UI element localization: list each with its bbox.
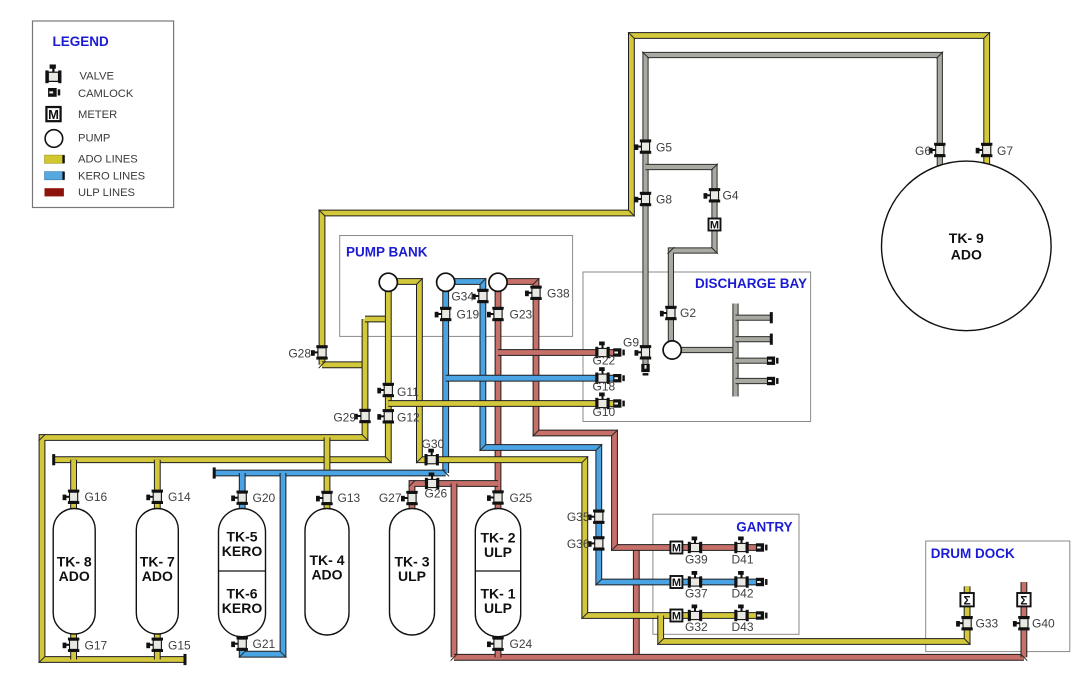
valve G8 <box>635 192 652 206</box>
node PUMP BANK box <box>340 236 573 337</box>
valve G38 <box>525 286 542 300</box>
node KERO header end <box>213 467 216 478</box>
wire yellow G15 stub <box>154 630 161 660</box>
node stub2 end <box>770 334 773 345</box>
svg-text:G32: G32 <box>685 620 708 634</box>
wire yellow top loop G28 to TK-9 <box>322 36 987 365</box>
camlock G9 end <box>641 364 649 376</box>
wire gray manifold <box>732 304 738 397</box>
svg-text:G9: G9 <box>623 336 639 350</box>
svg-text:G28: G28 <box>288 347 311 361</box>
node tank TK-7 <box>136 509 178 635</box>
svg-text:G21: G21 <box>253 637 276 651</box>
wire red pump3 riser to TK-2 <box>495 291 502 509</box>
valve G7 <box>976 143 993 157</box>
valve G25 <box>487 490 504 504</box>
wire red branch down <box>451 484 458 658</box>
svg-text:G7: G7 <box>997 144 1013 158</box>
camlock legend icon <box>48 88 60 97</box>
valve G23 <box>487 307 504 321</box>
svg-text:DRUM DOCK: DRUM DOCK <box>931 546 1015 561</box>
svg-text:G40: G40 <box>1032 617 1055 631</box>
wire red pump3 discharge to gantry <box>498 282 758 548</box>
valve G12 <box>377 409 394 423</box>
svg-text:G11: G11 <box>397 385 419 399</box>
pump legend icon <box>45 130 63 148</box>
node stub1 end <box>770 312 773 323</box>
svg-text:G18: G18 <box>593 380 616 394</box>
camlock gantry ADO end <box>756 611 768 619</box>
camlock manifold stub 4 end <box>767 377 779 385</box>
svg-text:ULP LINES: ULP LINES <box>78 187 135 199</box>
camlock G22 end <box>613 348 625 356</box>
meter gantry meter ADO <box>670 610 682 623</box>
svg-text:G15: G15 <box>168 638 191 652</box>
wire gray G4 branch to discharge pump <box>646 167 715 345</box>
wire yellow pump1 discharge to gantry <box>388 282 758 616</box>
svg-text:PUMP: PUMP <box>78 133 110 145</box>
valve G24 <box>487 637 504 651</box>
valve G34 <box>472 289 489 303</box>
node tank TK-8 <box>53 509 95 635</box>
svg-text:ADO: ADO <box>311 567 342 583</box>
svg-text:DISCHARGE BAY: DISCHARGE BAY <box>695 276 807 291</box>
node tank TK-5/TK-6 <box>219 509 266 637</box>
valve legend icon <box>45 64 61 83</box>
svg-text:G29: G29 <box>333 411 356 425</box>
wire gray manifold stub 2 <box>736 336 771 342</box>
node DRUM DOCK box <box>926 541 1070 652</box>
svg-text:G25: G25 <box>510 491 533 505</box>
svg-text:G13: G13 <box>338 491 361 505</box>
svg-text:ADO LINES: ADO LINES <box>78 154 138 166</box>
svg-text:G38: G38 <box>547 286 570 300</box>
svg-text:G14: G14 <box>168 490 191 504</box>
wire red G22 line <box>498 349 614 356</box>
pump discharge pump <box>663 341 681 359</box>
valve G5 <box>635 139 652 153</box>
svg-text:D41: D41 <box>732 553 754 567</box>
svg-text:D43: D43 <box>732 620 754 634</box>
camlock gantry ULP end <box>756 543 768 551</box>
svg-text:PUMP BANK: PUMP BANK <box>346 245 428 260</box>
svg-text:G24: G24 <box>510 637 533 651</box>
meter gantry meter ULP <box>670 542 682 555</box>
valve G11 <box>377 383 394 397</box>
pump P1 (ADO) <box>379 273 397 291</box>
valve G14 <box>146 490 163 504</box>
svg-text:G26: G26 <box>425 487 448 501</box>
pump P3 (ULP) <box>489 273 507 291</box>
valve G13 <box>316 491 333 505</box>
meter legend icon <box>46 107 60 122</box>
svg-text:G8: G8 <box>656 193 672 207</box>
svg-text:KERO: KERO <box>222 600 263 616</box>
node tank TK-2/TK-1 <box>475 509 520 637</box>
svg-text:G23: G23 <box>510 308 533 322</box>
svg-text:ADO: ADO <box>142 568 173 584</box>
wire blue G21 bypass <box>242 473 283 654</box>
valve D43 <box>734 605 748 622</box>
wire yellow left net to tank bottoms <box>42 319 365 660</box>
camlock gantry KERO end <box>756 578 768 586</box>
valve G33 <box>956 616 973 630</box>
svg-text:G30: G30 <box>422 437 445 451</box>
svg-text:G20: G20 <box>253 491 276 505</box>
svg-text:G19: G19 <box>457 308 480 322</box>
valve G17 <box>63 638 80 652</box>
svg-text:KERO: KERO <box>222 543 263 559</box>
svg-text:ULP: ULP <box>398 568 426 584</box>
svg-text:ULP: ULP <box>484 544 512 560</box>
valve G32 <box>688 605 702 622</box>
node GANTRY box <box>653 514 799 634</box>
valve G10 <box>595 393 609 410</box>
svg-text:ADO: ADO <box>59 568 90 584</box>
svg-text:G36: G36 <box>567 537 590 551</box>
svg-text:G6: G6 <box>915 144 931 158</box>
meter totalizer ADO <box>960 593 973 607</box>
node header end <box>52 454 55 465</box>
svg-text:D42: D42 <box>732 587 754 601</box>
wire blue KERO header <box>214 470 446 477</box>
valve G39 <box>688 537 702 554</box>
node tank TK-9 <box>882 161 1052 331</box>
valve D41 <box>734 537 748 554</box>
svg-text:GANTRY: GANTRY <box>736 520 793 535</box>
valve G21 <box>231 637 248 651</box>
svg-text:G39: G39 <box>685 553 708 567</box>
valve G27 <box>401 491 418 505</box>
node tank TK-3 <box>390 509 435 636</box>
camlock G10 end <box>613 399 625 407</box>
wire blue G20 stub <box>239 473 246 512</box>
wire gray pump to manifold <box>672 347 735 353</box>
svg-text:G27: G27 <box>379 491 402 505</box>
valve G2 <box>660 306 677 320</box>
valve G20 <box>231 491 248 505</box>
wire yellow pump1 riser and tank header <box>54 291 389 460</box>
wire blue G18 line <box>446 375 614 382</box>
wire red bottom line <box>454 654 1024 661</box>
meter gantry meter KERO <box>670 576 682 589</box>
node legend ADO swatch <box>45 155 65 163</box>
node DISCHARGE BAY box <box>583 272 811 422</box>
wire red G24 stub <box>495 630 502 657</box>
svg-text:CAMLOCK: CAMLOCK <box>78 88 134 100</box>
svg-text:G17: G17 <box>85 638 108 652</box>
wire yellow G17 stub <box>70 630 77 660</box>
valve G16 <box>63 490 80 504</box>
meter totalizer ULP <box>1017 593 1030 607</box>
valve G15 <box>146 638 163 652</box>
svg-text:METER: METER <box>78 109 117 121</box>
valve G35 <box>588 510 605 524</box>
valve G30 <box>425 449 439 466</box>
svg-text:ULP: ULP <box>484 600 512 616</box>
wire gray manifold stub 1 <box>736 315 771 321</box>
node legend KERO swatch <box>45 172 65 180</box>
valve G9 <box>635 345 652 359</box>
wire yellow G28 bottom link <box>322 361 365 368</box>
svg-text:KERO LINES: KERO LINES <box>78 170 145 182</box>
valve D42 <box>734 571 748 588</box>
camlock manifold stub 3 end <box>767 357 779 365</box>
node bottom line end <box>184 654 187 665</box>
wire red G26 line and TK-3 feed <box>412 484 498 513</box>
wire red drum dock riser <box>1021 582 1028 657</box>
wire yellow G16 stub <box>70 460 77 512</box>
valve G19 <box>435 307 452 321</box>
valve G22 <box>595 342 609 359</box>
svg-text:LEGEND: LEGEND <box>53 34 110 49</box>
camlock G18 end <box>613 374 625 382</box>
wire yellow TK-4 feed <box>324 438 331 513</box>
wire yellow G10 line <box>388 400 614 407</box>
valve G18 <box>595 367 609 384</box>
meter discharge meter <box>709 219 721 232</box>
wire yellow G14 stub <box>154 460 161 512</box>
valve G40 <box>1013 616 1030 630</box>
svg-text:G35: G35 <box>567 510 590 524</box>
svg-text:TK- 9: TK- 9 <box>949 230 984 246</box>
svg-text:G37: G37 <box>685 587 708 601</box>
wire blue pump2 riser <box>442 291 449 473</box>
svg-text:G10: G10 <box>593 405 616 419</box>
wire gray manifold stub 4 <box>736 378 768 384</box>
wire gray manifold stub 3 <box>736 358 768 364</box>
node LEGEND box <box>33 21 174 208</box>
wire red gantry drop (under) <box>633 548 640 658</box>
svg-text:G5: G5 <box>656 140 672 154</box>
svg-text:G12: G12 <box>397 411 420 425</box>
wire blue pump2 discharge to gantry <box>446 282 758 583</box>
node tank TK-4 <box>305 509 349 636</box>
valve G4 <box>704 188 721 202</box>
valve G6 <box>929 143 946 157</box>
svg-text:G16: G16 <box>85 490 108 504</box>
valve G37 <box>688 571 702 588</box>
pump P2 (KERO) <box>437 273 455 291</box>
svg-text:G2: G2 <box>680 306 696 320</box>
valve G26 <box>425 473 439 490</box>
svg-text:G4: G4 <box>723 189 739 203</box>
wire yellow gantry branch to drum dock <box>661 586 967 641</box>
svg-text:ADO: ADO <box>951 247 982 263</box>
svg-text:VALVE: VALVE <box>80 71 114 83</box>
wire yellow link to pump1 riser <box>365 316 388 323</box>
valve G36 <box>588 536 605 550</box>
valve G29 <box>354 409 371 423</box>
valve G28 <box>311 345 328 359</box>
svg-text:G34: G34 <box>451 290 474 304</box>
svg-text:G33: G33 <box>976 617 999 631</box>
wire gray main: discharge riser to TK-9 <box>646 55 940 367</box>
svg-text:G22: G22 <box>593 354 616 368</box>
node legend ULP swatch <box>45 188 64 196</box>
